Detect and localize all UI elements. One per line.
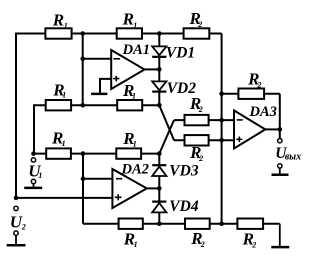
svg-text:2: 2 [198,154,203,163]
svg-text:VD2: VD2 [167,80,197,97]
svg-text:2: 2 [251,241,256,250]
svg-text:VD1: VD1 [166,45,195,62]
svg-text:R: R [52,11,64,30]
svg-text:DA3: DA3 [249,104,277,120]
svg-text:1: 1 [64,21,68,30]
svg-text:1: 1 [38,171,42,180]
svg-text:DA1: DA1 [122,42,150,58]
svg-text:2: 2 [200,240,205,249]
svg-text:VD4: VD4 [169,198,199,215]
svg-text:2: 2 [257,80,262,89]
svg-text:1: 1 [62,139,66,148]
svg-text:вых: вых [285,151,301,162]
svg-text:1: 1 [133,139,137,148]
svg-text:2: 2 [21,223,26,232]
svg-text:2: 2 [197,20,202,29]
svg-text:2: 2 [198,105,203,114]
svg-text:DA2: DA2 [121,162,149,178]
svg-text:R: R [122,10,134,29]
svg-text:1: 1 [62,91,66,100]
svg-text:1: 1 [132,91,136,100]
svg-text:1: 1 [133,21,137,30]
svg-text:VD3: VD3 [169,162,199,179]
svg-text:1: 1 [134,240,138,249]
